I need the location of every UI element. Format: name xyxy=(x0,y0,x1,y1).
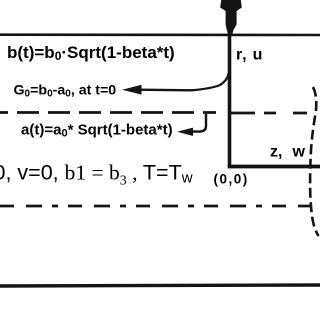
upper inner radius dashed line left xyxy=(0,111,216,114)
upper inner radius dashed line right xyxy=(229,112,310,115)
svg-text:G0=b0-a0, at t=0: G0=b0-a0, at t=0 xyxy=(14,83,117,100)
G0 leader arrow head xyxy=(122,85,142,95)
svg-text:(0,0): (0,0) xyxy=(214,172,249,187)
a(t) elbow leader line xyxy=(190,114,206,132)
svg-text:a(t)=a0* Sqrt(1-beta*t): a(t)=a0* Sqrt(1-beta*t) xyxy=(21,122,173,140)
svg-text:0, v=0, b1 = b3 , T=Tw: 0, v=0, b1 = b3 , T=Tw xyxy=(0,161,193,189)
svg-text:b(t)=b0·Sqrt(1-beta*t): b(t)=b0·Sqrt(1-beta*t) xyxy=(7,43,175,63)
top wall line xyxy=(0,33,320,36)
G0 leader arrow line to axis xyxy=(138,73,229,90)
a(t) leader arrow head xyxy=(177,128,193,136)
ellipse cross-section dashed arc xyxy=(310,87,318,236)
lower inner radius dashed line xyxy=(0,205,311,208)
svg-text:z,w: z,w xyxy=(270,144,306,161)
bottom wall line xyxy=(0,285,320,286)
r-axis fat arrow head xyxy=(220,0,242,34)
z-axis horizontal line xyxy=(228,165,320,169)
svg-text:r, u: r, u xyxy=(236,47,263,64)
r-axis vertical line xyxy=(228,8,232,167)
